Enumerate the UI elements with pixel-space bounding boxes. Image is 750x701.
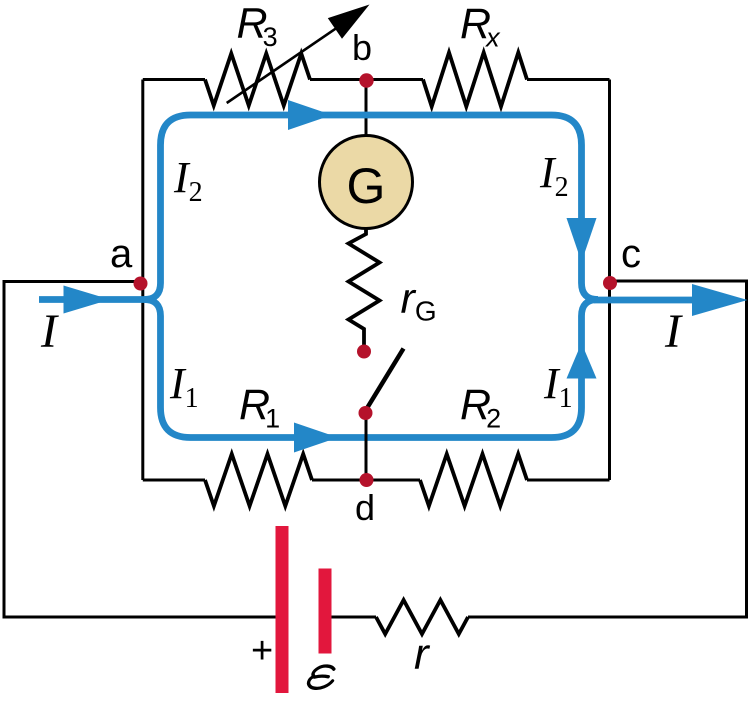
switch blade (367, 349, 404, 410)
svg-text:I1: I1 (169, 359, 199, 414)
R3 wiper arrow shaft (227, 22, 346, 103)
resistor R2 zigzag (420, 454, 527, 506)
blue current path: upper loop a-b-c (144, 115, 598, 300)
resistor R3 zigzag (205, 54, 310, 106)
battery negative plate (short) (319, 569, 332, 654)
R3 wiper arrowhead (328, 5, 370, 39)
svg-text:a: a (110, 232, 133, 276)
svg-text:b: b (352, 27, 372, 68)
node a dot (134, 277, 148, 291)
wire: outer loop from battery to resistor r (332, 616, 377, 619)
svg-text:d: d (355, 487, 375, 528)
svg-text:R1: R1 (239, 381, 280, 434)
svg-text:I: I (40, 305, 59, 358)
blue current path: lower loop a-d-c (144, 300, 598, 438)
svg-text:I2: I2 (173, 153, 203, 208)
node dot switch pivot (359, 406, 373, 420)
blue arrowhead: right branch I2 downward (567, 218, 597, 262)
wire: outer loop right segment from resistor r to node c (468, 281, 747, 617)
svg-text:R3: R3 (237, 0, 278, 52)
bridge rectangle left edge (141, 80, 144, 481)
blue arrowhead: exit I (692, 284, 748, 316)
node dot below rG (357, 345, 371, 359)
bridge rectangle right edge (608, 80, 611, 481)
blue current path: entry arrowhead I (64, 286, 111, 314)
svg-text:I: I (664, 305, 683, 358)
svg-text:I2: I2 (539, 148, 569, 203)
bridge top edge wires (143, 78, 610, 81)
blue current path: exit shaft at node c (594, 297, 700, 304)
svg-text:I1: I1 (543, 359, 573, 414)
node d dot (360, 473, 374, 487)
blue current path: entry shaft at node a (39, 296, 150, 303)
blue arrowhead: right branch I1 upward (567, 343, 597, 379)
svg-text:+: + (251, 630, 273, 672)
svg-text:rG: rG (401, 275, 437, 327)
resistor r zigzag (376, 600, 468, 634)
bridge bottom edge wires (143, 479, 610, 482)
wire: node b to galvanometer (365, 80, 368, 137)
resistor Rx zigzag (423, 53, 527, 107)
svg-text:R2: R2 (460, 381, 501, 434)
svg-text:c: c (621, 232, 641, 276)
galvanometer U=G circle (320, 136, 413, 229)
node c dot (603, 276, 617, 290)
blue arrowhead: top branch I2 (288, 100, 332, 130)
wire: outer loop left segment from node a to battery (4, 282, 277, 618)
svg-text:r: r (414, 630, 431, 679)
resistor rG zigzag (349, 228, 380, 351)
resistor R1 zigzag (205, 454, 312, 506)
wire: switch to node d (365, 413, 368, 480)
label EMF script E (308, 666, 336, 688)
blue arrowhead: bottom branch I1 (294, 423, 338, 453)
node b dot (359, 73, 373, 87)
svg-text:Rx: Rx (460, 0, 501, 53)
svg-text:G: G (347, 158, 386, 214)
battery positive plate (long) (276, 526, 289, 693)
